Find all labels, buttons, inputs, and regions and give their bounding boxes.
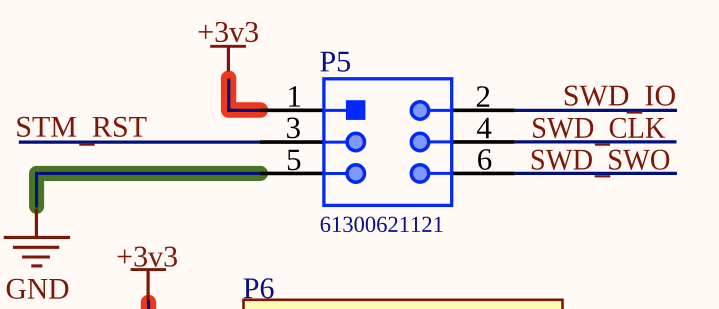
connector P5 : value 61300621121 <box>321 217 443 233</box>
underscore of STM_RST poking below wire <box>79 144 94 146</box>
pin number 5 <box>288 150 300 171</box>
pin 2 circle pad <box>411 102 428 119</box>
ground symbol : bar 3 <box>22 255 50 258</box>
wire pin2 stub (black) <box>452 109 515 113</box>
connector P5 : reference label <box>320 52 350 72</box>
wire pin4 stub (black) <box>452 140 515 144</box>
power symbol +3v3 (bottom) : label <box>118 247 177 267</box>
highlight of net +3v3 (red, bottom stub) <box>141 302 156 309</box>
pin 5 circle pad <box>347 165 364 182</box>
ground symbol : label GND <box>7 279 69 299</box>
pin number 2 <box>477 86 489 107</box>
underscore of SWD_SWO poking below wire <box>595 175 611 177</box>
power symbol +3v3 (bottom) : stem <box>147 270 150 300</box>
ground symbol : bar 4 <box>31 264 42 267</box>
pin 6 circle pad <box>411 165 428 182</box>
ground symbol : bar 1 <box>4 236 70 239</box>
underscore of SWD_CLK poking below wire <box>595 144 610 146</box>
pin number 3 <box>287 117 300 138</box>
net label SWD_IO <box>565 86 675 106</box>
pin number 1 <box>289 86 300 106</box>
pin number 6 <box>478 149 491 170</box>
wire pin6 stub (black) <box>452 172 515 176</box>
wire pin5 stub (black) <box>260 172 324 176</box>
ground symbol : bar 2 <box>13 246 59 249</box>
wire pin1 stub (black) <box>260 109 324 113</box>
wire GND net (navy, under green highlight) <box>37 173 262 207</box>
underscore of SWD_IO poking below wire <box>627 111 643 113</box>
wire pin3 stub (black) <box>260 140 324 144</box>
wire +3v3 to pin1 (navy, under red highlight) <box>229 79 262 111</box>
pin 1 square pad <box>346 100 366 120</box>
net label SWD_CLK <box>533 118 665 138</box>
wire SWD_SWO (navy) <box>515 172 677 175</box>
pin 6 stub inside box <box>428 172 452 175</box>
pin 4 stub inside box <box>428 140 452 143</box>
highlight of net GND (green) <box>37 173 261 206</box>
ground symbol : stem <box>35 209 38 238</box>
pin 3 stub inside box <box>324 141 348 144</box>
wire +3v3 bottom (navy, under red highlight) <box>147 300 150 309</box>
pin 3 circle pad <box>347 133 364 150</box>
power symbol +3v3 (top) : label <box>199 22 258 42</box>
power symbol +3v3 (bottom) : bar <box>131 268 167 271</box>
pin 4 circle pad <box>411 133 428 150</box>
net label STM_RST <box>17 117 146 137</box>
net label SWD_SWO <box>532 150 669 170</box>
wire SWD_CLK (navy) <box>515 140 677 143</box>
pin 1 stub inside box <box>324 109 348 112</box>
wire STM_RST (navy) <box>19 141 261 144</box>
power symbol +3v3 (top) : bar <box>210 45 246 48</box>
highlight of net +3v3 (red, top) <box>229 78 261 110</box>
pin number 4 <box>477 118 491 138</box>
connector P6 : reference label <box>244 278 274 298</box>
pin 5 stub inside box <box>324 172 348 175</box>
pin 2 stub inside box <box>428 109 452 112</box>
power symbol +3v3 (top) : stem <box>227 46 230 71</box>
connector P6 : body outline (clipped at bottom) <box>244 300 563 309</box>
connector P5 : body outline <box>324 79 452 206</box>
wire SWD_IO (navy) <box>515 109 677 112</box>
